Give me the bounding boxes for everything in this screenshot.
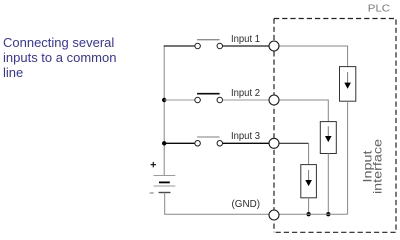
switch SW2 contact circles: [195, 97, 223, 103]
wire: input element 3 to bus: [308, 198, 310, 214]
wire: terminal 1 to input element 1: [279, 46, 348, 67]
svg-text:(GND): (GND): [232, 199, 261, 210]
input element box 3 (current arrow): [301, 165, 317, 198]
switch SW2 blade: [197, 93, 220, 95]
junction bus at element 3: [306, 212, 310, 216]
switch SW1 blade: [197, 39, 220, 41]
wire: left supply rail: [163, 46, 165, 176]
wire: switch SW2 to terminal Input 2: [223, 99, 269, 101]
svg-text:line: line: [3, 65, 23, 80]
svg-text:Connecting several: Connecting several: [3, 35, 114, 50]
junction on rail row 2: [162, 98, 166, 102]
wire: internal common bus: [279, 213, 348, 215]
battery BT1 minus sign: [150, 192, 154, 194]
wire: terminal 2 to input element 2: [279, 100, 328, 122]
svg-text:Input 2: Input 2: [231, 88, 260, 99]
wire: switch SW1 to terminal Input 1: [223, 45, 269, 47]
PLC enclosure dashed boundary: [274, 19, 396, 233]
junction on rail row 3: [162, 141, 166, 145]
input element box 2 (current arrow): [320, 122, 336, 154]
caption text: [3, 35, 116, 80]
wire: row 1 rail to switch: [164, 45, 195, 47]
input element box 1 (current arrow): [340, 67, 356, 102]
switch SW3 blade: [197, 136, 220, 138]
switch SW3 contact circles: [195, 141, 223, 147]
terminal GND: [269, 210, 279, 220]
wire: input element 1 to bus: [347, 101, 349, 214]
terminal Input 2: [269, 95, 279, 105]
wire: row 3 rail to switch: [164, 142, 194, 144]
wire: input element 2 to bus: [327, 154, 329, 215]
svg-text:Input 1: Input 1: [231, 34, 260, 45]
wire: row 2 rail to switch: [164, 99, 194, 101]
svg-text:inputs to a common: inputs to a common: [3, 50, 116, 65]
battery BT1 plates: [154, 176, 176, 193]
svg-text:PLC: PLC: [368, 3, 391, 15]
junction bus at element 2: [326, 212, 330, 216]
terminal Input 1: [269, 41, 279, 51]
switch SW1 contact circles: [195, 43, 223, 49]
wire: terminal 3 to input element 3: [279, 142, 309, 144]
battery BT1 plus sign: [151, 162, 156, 167]
terminal Input 3: [269, 138, 279, 148]
svg-text:Input 3: Input 3: [231, 131, 260, 142]
wire: switch SW3 to terminal Input 3: [223, 142, 269, 144]
wire: battery negative stem: [164, 193, 166, 215]
wire: bottom return bus to GND terminal: [164, 213, 269, 215]
